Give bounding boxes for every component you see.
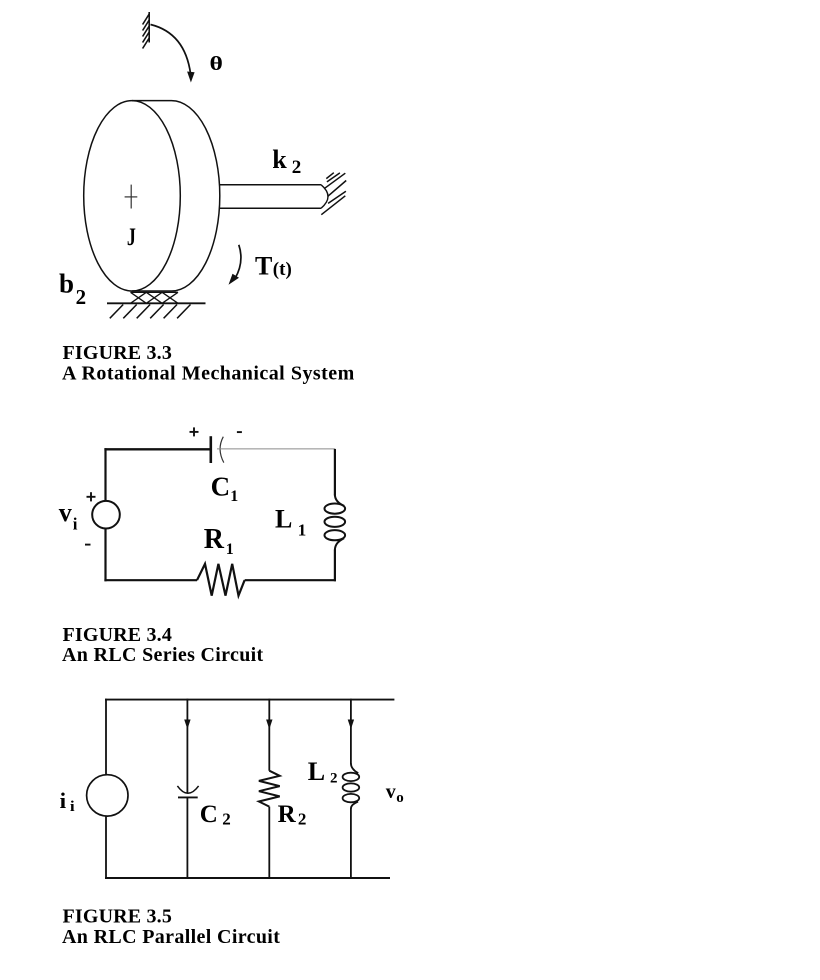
inductor L1 <box>325 495 346 551</box>
svg-text:2: 2 <box>76 285 87 309</box>
resistor R2 <box>259 771 280 807</box>
inductor L2 <box>343 763 360 809</box>
svg-text:An RLC Series Circuit: An RLC Series Circuit <box>62 644 264 666</box>
svg-text:C: C <box>211 471 231 501</box>
plus label <box>87 496 96 498</box>
svg-text:R: R <box>278 801 297 828</box>
L2 branch wire lower <box>350 808 352 879</box>
theta rotation arrow <box>151 25 191 75</box>
wire top <box>105 699 394 701</box>
capacitor C2 curved plate <box>177 786 198 793</box>
svg-text:θ: θ <box>210 53 223 75</box>
svg-text:2: 2 <box>292 157 302 178</box>
voltage source vi <box>92 501 120 529</box>
ground hatches <box>110 305 191 319</box>
svg-text:L: L <box>275 505 292 534</box>
resistor R1 <box>197 564 245 596</box>
svg-text:i: i <box>60 788 67 813</box>
wire bottom right segment <box>245 579 336 581</box>
svg-text:k: k <box>272 145 287 174</box>
svg-text:i: i <box>73 515 78 534</box>
svg-text:An RLC Parallel Circuit: An RLC Parallel Circuit <box>62 926 280 948</box>
wire left lower <box>104 528 106 581</box>
svg-text:A Rotational Mechanical System: A Rotational Mechanical System <box>62 363 355 385</box>
cylinder J: back ellipse right arc <box>172 101 220 291</box>
wire bottom left segment <box>104 579 197 581</box>
svg-text:o: o <box>396 790 404 806</box>
wall anchor (right) <box>321 173 346 215</box>
svg-text:R: R <box>204 524 225 555</box>
left branch wire upper <box>105 699 107 775</box>
shaft spring k2 <box>220 184 322 186</box>
cap plus <box>190 431 199 433</box>
capacitor C1 left plate <box>210 436 213 463</box>
current source ii <box>87 775 128 816</box>
svg-text:2: 2 <box>298 809 307 828</box>
arrow C2 branch <box>184 720 190 730</box>
R2 branch wire upper <box>268 699 270 771</box>
svg-text:i: i <box>70 799 75 815</box>
wall anchor (top left) <box>143 12 150 49</box>
wire bottom <box>105 877 390 879</box>
svg-text:C: C <box>200 801 218 828</box>
svg-text:(t): (t) <box>273 259 292 280</box>
capacitor C2 straight plate <box>178 796 198 798</box>
svg-text:v: v <box>59 498 72 527</box>
thin wire to right <box>217 448 335 450</box>
svg-text:FIGURE 3.4: FIGURE 3.4 <box>63 624 172 646</box>
capacitor C1 curved plate <box>220 437 224 463</box>
svg-text:FIGURE 3.5: FIGURE 3.5 <box>63 905 172 927</box>
cylinder J: front ellipse <box>84 101 181 291</box>
svg-text:b: b <box>59 269 74 299</box>
svg-text:FIGURE 3.3: FIGURE 3.3 <box>63 342 172 364</box>
svg-text:1: 1 <box>226 541 234 558</box>
R2 branch wire lower <box>268 807 270 879</box>
svg-text:2: 2 <box>330 771 338 787</box>
svg-text:L: L <box>308 757 325 786</box>
cylinder J: top edge <box>132 100 172 102</box>
svg-text:2: 2 <box>222 809 231 828</box>
wire right lower <box>334 550 336 582</box>
cylinder J: bottom edge <box>132 290 172 292</box>
bearing crosshatch b2 <box>131 292 179 303</box>
left branch wire lower <box>105 816 107 879</box>
arrow R2 branch <box>266 720 272 730</box>
minus label <box>85 544 91 546</box>
svg-text:1: 1 <box>298 520 307 539</box>
wire right upper <box>334 449 336 496</box>
L2 branch wire upper <box>350 699 352 764</box>
C2 branch wire upper <box>186 699 188 793</box>
center mark + <box>130 185 132 209</box>
ground line <box>107 302 206 304</box>
svg-text:1: 1 <box>230 488 238 505</box>
C2 branch wire lower <box>186 797 188 879</box>
arrow L2 branch <box>348 720 354 730</box>
svg-text:J: J <box>127 224 136 251</box>
wire left <box>104 448 106 501</box>
svg-text:v: v <box>386 781 396 803</box>
svg-text:T: T <box>255 251 272 280</box>
wire top (thick) <box>104 448 212 450</box>
cap minus <box>237 431 242 433</box>
torque arrow T(t) <box>235 245 241 279</box>
